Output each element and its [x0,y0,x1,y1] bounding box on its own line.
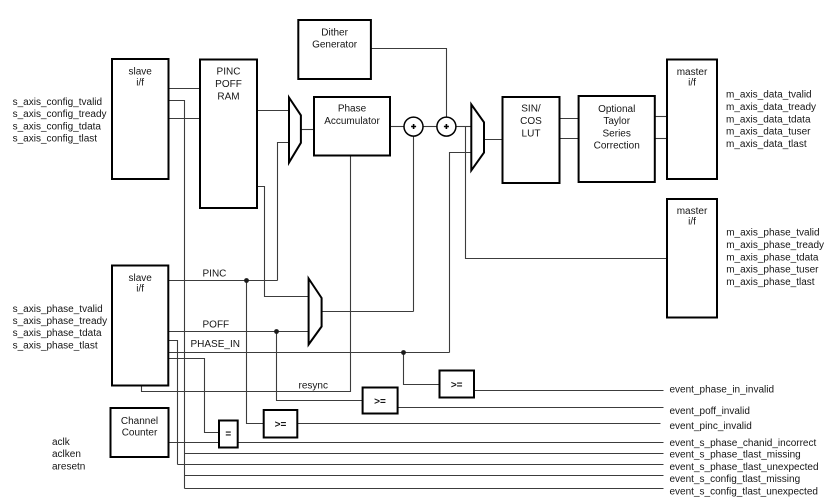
svg-text:event_pinc_invalid: event_pinc_invalid [670,421,752,432]
svg-text:event_s_phase_tlast_unexpected: event_s_phase_tlast_unexpected [670,462,819,473]
svg-text:event_s_config_tlast_missing: event_s_config_tlast_missing [670,474,801,485]
svg-text:s_axis_config_tdata: s_axis_config_tdata [13,121,102,132]
svg-text:event_poff_invalid: event_poff_invalid [670,406,750,417]
svg-text:i/f: i/f [688,216,696,227]
svg-text:Counter: Counter [122,428,158,439]
svg-text:event_s_config_tlast_unexpecte: event_s_config_tlast_unexpected [670,487,818,498]
svg-text:>=: >= [275,419,287,430]
svg-text:s_axis_config_tvalid: s_axis_config_tvalid [13,97,103,108]
svg-text:event_s_phase_tlast_missing: event_s_phase_tlast_missing [670,450,801,461]
svg-text:s_axis_config_tready: s_axis_config_tready [13,109,107,120]
svg-text:slave: slave [129,273,153,284]
svg-text:slave: slave [129,67,153,78]
svg-text:i/f: i/f [136,283,144,294]
svg-text:Optional: Optional [598,104,635,115]
svg-text:s_axis_phase_tlast: s_axis_phase_tlast [13,340,98,351]
svg-text:Series: Series [603,128,631,139]
svg-text:Phase: Phase [338,104,367,115]
svg-text:aclk: aclk [52,437,71,448]
svg-text:m_axis_phase_tready: m_axis_phase_tready [726,240,824,251]
svg-text:PINC: PINC [217,67,241,78]
svg-text:resync: resync [299,381,328,392]
svg-text:=: = [225,429,231,440]
svg-text:Correction: Correction [594,140,640,151]
svg-text:COS: COS [520,116,542,127]
svg-text:event_phase_in_invalid: event_phase_in_invalid [670,385,775,396]
svg-text:Channel: Channel [121,416,158,427]
svg-text:Dither: Dither [321,27,348,38]
svg-text:PHASE_IN: PHASE_IN [191,339,240,350]
svg-text:s_axis_config_tlast: s_axis_config_tlast [13,134,98,145]
svg-text:m_axis_data_tlast: m_axis_data_tlast [726,139,807,150]
svg-text:aclken: aclken [52,449,81,460]
svg-text:m_axis_data_tvalid: m_axis_data_tvalid [726,89,812,100]
svg-text:s_axis_phase_tready: s_axis_phase_tready [13,316,108,327]
svg-text:Generator: Generator [312,40,358,51]
svg-text:i/f: i/f [136,78,144,89]
svg-text:POFF: POFF [215,79,242,90]
svg-text:m_axis_phase_tlast: m_axis_phase_tlast [726,277,815,288]
svg-text:Accumulator: Accumulator [324,116,380,127]
svg-text:i/f: i/f [688,78,696,89]
svg-text:>=: >= [451,380,463,391]
svg-text:m_axis_data_tdata: m_axis_data_tdata [726,114,811,125]
svg-text:>=: >= [374,396,386,407]
svg-text:LUT: LUT [522,128,541,139]
svg-text:SIN/: SIN/ [521,104,541,115]
svg-text:m_axis_data_tuser: m_axis_data_tuser [726,127,811,138]
svg-text:POFF: POFF [203,320,230,331]
svg-text:Taylor: Taylor [603,116,630,127]
svg-text:PINC: PINC [203,269,227,280]
svg-text:m_axis_data_tready: m_axis_data_tready [726,102,816,113]
svg-text:m_axis_phase_tvalid: m_axis_phase_tvalid [726,227,819,238]
svg-text:m_axis_phase_tuser: m_axis_phase_tuser [726,265,819,276]
svg-text:event_s_phase_chanid_incorrect: event_s_phase_chanid_incorrect [670,438,817,449]
svg-text:m_axis_phase_tdata: m_axis_phase_tdata [726,252,819,263]
svg-text:master: master [677,67,708,78]
svg-text:aresetn: aresetn [52,461,85,472]
svg-text:RAM: RAM [217,92,239,103]
svg-text:master: master [677,206,708,217]
svg-text:s_axis_phase_tdata: s_axis_phase_tdata [13,328,102,339]
svg-text:s_axis_phase_tvalid: s_axis_phase_tvalid [13,304,103,315]
